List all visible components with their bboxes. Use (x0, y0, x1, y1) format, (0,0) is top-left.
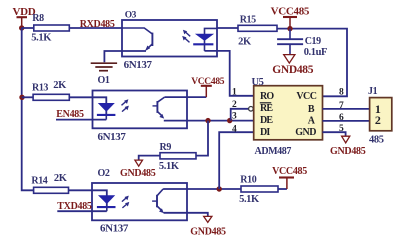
pin number 2 (232, 100, 237, 110)
LED in O3 (193, 28, 217, 51)
svg-text:485: 485 (369, 135, 384, 146)
svg-text:ADM487: ADM487 (255, 146, 292, 157)
svg-text:R13: R13 (32, 83, 48, 94)
designator O1 (98, 75, 110, 86)
wire TXD485 stub (57, 210, 107, 212)
svg-text:GND485: GND485 (190, 227, 226, 238)
svg-text:GND485: GND485 (330, 146, 366, 157)
pin name DI (260, 127, 270, 138)
wire rail to R13 (22, 96, 33, 98)
svg-text:R8: R8 (32, 13, 44, 24)
wire U5 pin6 A to J1 (323, 120, 370, 122)
wire O2 collector to R10 (DI net) (163, 188, 241, 190)
svg-text:5.1K: 5.1K (239, 194, 260, 205)
wire DI riser to U5 pin4 (219, 132, 254, 189)
svg-text:U5: U5 (252, 77, 264, 88)
svg-text:EN485: EN485 (56, 109, 84, 120)
svg-text:VCC485: VCC485 (271, 6, 310, 18)
wire EN485 stub (56, 119, 106, 121)
resistor R10 (239, 174, 278, 205)
pin number 1 (232, 88, 237, 98)
svg-text:A: A (308, 116, 316, 127)
pin number 6 (339, 113, 344, 123)
optocoupler O3 box (122, 11, 217, 72)
svg-text:RXD485: RXD485 (80, 19, 115, 30)
svg-text:6N137: 6N137 (98, 131, 127, 143)
wire R13 to O1 LED (69, 97, 106, 115)
svg-text:5.1K: 5.1K (159, 161, 180, 172)
junction DI net (217, 186, 222, 191)
svg-text:J1: J1 (368, 86, 378, 97)
resistor R15 (238, 15, 277, 48)
phototransistor in O3 (122, 28, 152, 51)
svg-text:VCC485: VCC485 (272, 166, 307, 177)
svg-text:R10: R10 (240, 174, 256, 185)
wire VDD node to R8 (22, 27, 34, 29)
net label TXD485 (57, 201, 92, 212)
svg-text:RE: RE (260, 103, 273, 114)
svg-text:R9: R9 (160, 142, 172, 153)
inversion bubble pin2 (249, 107, 254, 112)
svg-text:O3: O3 (125, 11, 137, 21)
power GND485 (below C19) (272, 55, 314, 76)
ground (earth) (91, 63, 117, 70)
svg-text:DE: DE (260, 115, 273, 126)
power VDD (13, 6, 36, 28)
wire R8 to O3 (69, 27, 122, 29)
IC U5 ADM487 (252, 77, 323, 157)
junction DE net left (205, 118, 210, 123)
power GND485 (O2) (190, 216, 226, 237)
svg-text:0.1uF: 0.1uF (304, 47, 327, 58)
pin name GND (295, 127, 316, 138)
pin name B (308, 104, 315, 115)
wire R9 to GND485 (139, 156, 160, 160)
resistor R9 (159, 142, 196, 172)
phototransistor in O2 (152, 189, 164, 213)
svg-text:6N137: 6N137 (100, 223, 129, 235)
net label EN485 (56, 109, 84, 120)
pin name RO (260, 91, 274, 102)
pin name RE with overbar (260, 103, 274, 114)
svg-text:3: 3 (232, 112, 237, 122)
svg-text:R15: R15 (240, 15, 256, 26)
pin number 7 (339, 101, 344, 111)
power GND485 (R9) (120, 160, 156, 179)
junction VCC485 node (287, 26, 292, 31)
svg-text:VCC485: VCC485 (191, 77, 225, 87)
svg-text:8: 8 (339, 88, 344, 98)
wire O2 emitter to GND485 (164, 213, 208, 217)
pin number 3 (232, 112, 237, 122)
light arrows O3 (182, 30, 190, 43)
svg-text:O2: O2 (98, 168, 110, 179)
svg-text:VCC: VCC (296, 91, 316, 102)
light arrows O1 (122, 99, 129, 111)
svg-text:TXD485: TXD485 (57, 201, 92, 212)
wire O1 emitter to U5 pin3 (DE net) (164, 120, 254, 122)
pin number 4 (232, 125, 237, 135)
power GND485 (U5 pin5) (330, 136, 366, 157)
svg-text:RO: RO (260, 91, 274, 102)
capacitor C19 (277, 29, 327, 59)
svg-text:4: 4 (232, 125, 237, 135)
net label RXD485 (80, 19, 115, 30)
wire O3 emitter to ground (104, 51, 146, 62)
svg-text:2K: 2K (54, 173, 68, 184)
svg-text:2K: 2K (53, 80, 67, 91)
connector J1 (368, 86, 392, 146)
wire DE net to R9 (196, 121, 208, 156)
optocoupler O2 box (92, 168, 187, 235)
wire O3 cathode to U5 pin1 (205, 51, 254, 96)
svg-text:C19: C19 (305, 36, 321, 47)
wire O3 to R15 (217, 27, 238, 29)
junction at VDD node (19, 25, 24, 30)
resistor R14 (31, 173, 68, 194)
svg-text:5.1K: 5.1K (31, 32, 52, 43)
svg-text:1: 1 (232, 88, 237, 98)
junction DE net right (227, 118, 232, 123)
power VCC485 (bottom) (272, 166, 307, 189)
resistor R8 (31, 13, 69, 43)
svg-text:2K: 2K (238, 37, 252, 48)
wire U5 pin5 to GND485 (323, 132, 346, 136)
wire left VDD rail (22, 28, 34, 190)
svg-text:R14: R14 (31, 176, 47, 187)
wire U5 pin7 B to J1 (323, 108, 370, 110)
pin number 8 (339, 88, 344, 98)
svg-text:GND: GND (295, 127, 316, 138)
wire R10 to VCC485 (278, 188, 287, 190)
svg-text:O1: O1 (98, 75, 110, 86)
svg-text:B: B (308, 104, 315, 115)
svg-text:2: 2 (232, 100, 237, 110)
wire R15 to VCC node and U5 pin8 riser (277, 29, 347, 97)
svg-text:2: 2 (375, 113, 381, 127)
wire U5 pin2 tie to DE net (231, 109, 249, 121)
LED in O1 (97, 103, 116, 120)
phototransistor in O1 (153, 97, 165, 119)
svg-text:6N137: 6N137 (124, 59, 153, 71)
optocoupler O1 box (93, 91, 188, 144)
svg-text:DI: DI (260, 127, 270, 138)
LED in O2 (97, 195, 116, 211)
power VCC485 (top) (271, 6, 310, 29)
resistor R13 (32, 80, 69, 100)
pin name A (308, 116, 316, 127)
pin number 5 (339, 124, 344, 134)
svg-text:GND485: GND485 (272, 64, 314, 76)
power VCC485 (middle) (191, 77, 225, 97)
wire R14 to O2 LED (69, 190, 107, 207)
light arrows O2 (122, 196, 129, 208)
pin name VCC (296, 91, 316, 102)
junction R13 tap (19, 95, 24, 100)
svg-text:GND485: GND485 (120, 168, 156, 179)
wire O1 collector to VCC (165, 96, 207, 98)
pin name DE (260, 115, 273, 126)
